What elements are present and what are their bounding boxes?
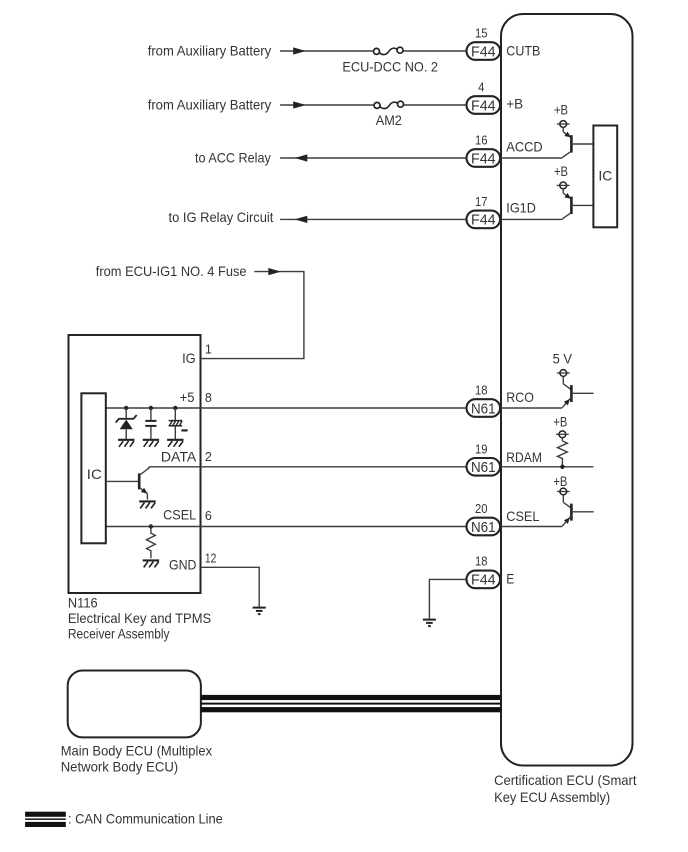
svg-text:20: 20 xyxy=(475,502,488,516)
svg-text:N61: N61 xyxy=(471,519,496,536)
svg-text:AM2: AM2 xyxy=(376,112,402,128)
svg-text:from Auxiliary Battery: from Auxiliary Battery xyxy=(148,96,272,112)
svg-text:F44: F44 xyxy=(471,97,496,114)
svg-text:Electrical Key and TPMS: Electrical Key and TPMS xyxy=(68,610,211,626)
svg-text:16: 16 xyxy=(475,134,488,148)
svg-text:N61: N61 xyxy=(471,400,496,417)
svg-text:F44: F44 xyxy=(471,572,496,589)
svg-text:+5: +5 xyxy=(180,389,195,405)
svg-text:2: 2 xyxy=(205,450,212,464)
svg-text:ACCD: ACCD xyxy=(506,139,542,155)
svg-text:Main Body ECU (Multiplex: Main Body ECU (Multiplex xyxy=(61,743,212,759)
svg-text:IG1D: IG1D xyxy=(506,200,536,216)
svg-text:N116: N116 xyxy=(68,595,98,611)
svg-text:F44: F44 xyxy=(471,43,496,60)
svg-text:+B: +B xyxy=(554,102,568,118)
svg-text:IC: IC xyxy=(598,167,612,183)
svg-text:8: 8 xyxy=(205,391,212,405)
svg-text:RCO: RCO xyxy=(506,389,534,405)
svg-text:GND: GND xyxy=(169,557,197,573)
svg-text:12: 12 xyxy=(205,552,217,566)
svg-text:IG: IG xyxy=(182,350,196,366)
svg-text:CUTB: CUTB xyxy=(506,42,540,58)
svg-text:RDAM: RDAM xyxy=(506,449,542,465)
svg-text:: CAN Communication Line: : CAN Communication Line xyxy=(68,811,223,827)
svg-text:to IG Relay Circuit: to IG Relay Circuit xyxy=(169,209,274,225)
svg-text:17: 17 xyxy=(475,195,488,209)
svg-text:Receiver Assembly: Receiver Assembly xyxy=(68,626,170,642)
svg-text:4: 4 xyxy=(478,81,484,95)
svg-text:CSEL: CSEL xyxy=(163,506,196,522)
svg-text:IC: IC xyxy=(87,466,102,482)
svg-text:1: 1 xyxy=(205,343,212,357)
svg-text:15: 15 xyxy=(475,27,488,41)
svg-text:CSEL: CSEL xyxy=(506,508,539,524)
svg-text:18: 18 xyxy=(475,384,488,398)
svg-text:to ACC Relay: to ACC Relay xyxy=(195,149,271,165)
svg-text:+B: +B xyxy=(553,473,567,489)
svg-text:Certification ECU (Smart: Certification ECU (Smart xyxy=(494,772,636,788)
svg-text:E: E xyxy=(506,571,514,587)
svg-text:18: 18 xyxy=(475,555,488,569)
svg-text:+B: +B xyxy=(554,163,568,179)
svg-text:from Auxiliary Battery: from Auxiliary Battery xyxy=(148,43,272,59)
svg-text:5 V: 5 V xyxy=(553,350,573,366)
svg-text:from ECU-IG1 NO. 4 Fuse: from ECU-IG1 NO. 4 Fuse xyxy=(96,263,247,279)
svg-text:Key ECU Assembly): Key ECU Assembly) xyxy=(494,789,610,805)
svg-text:DATA: DATA xyxy=(161,448,197,464)
svg-text:+B: +B xyxy=(506,95,523,111)
svg-text:19: 19 xyxy=(475,442,488,456)
svg-text:N61: N61 xyxy=(471,459,496,476)
svg-text:6: 6 xyxy=(205,509,212,523)
svg-text:+B: +B xyxy=(553,414,567,430)
svg-text:F44: F44 xyxy=(471,150,496,167)
svg-text:ECU-DCC NO. 2: ECU-DCC NO. 2 xyxy=(342,59,438,75)
svg-text:F44: F44 xyxy=(471,212,496,229)
svg-text:Network Body ECU): Network Body ECU) xyxy=(61,758,179,774)
